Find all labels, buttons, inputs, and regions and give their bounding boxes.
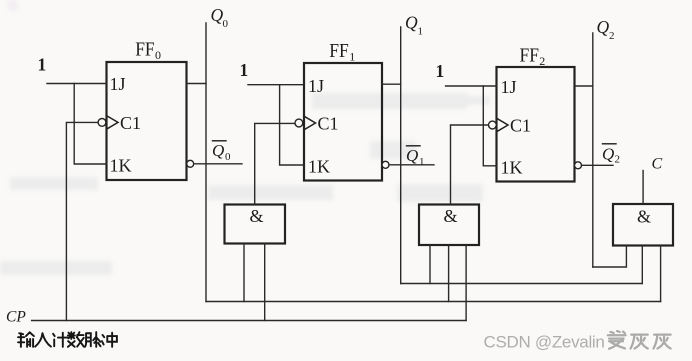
flip-flop FF0 <box>107 62 187 180</box>
wire: Qbar stub FF0 <box>194 163 242 165</box>
svg-text:1: 1 <box>436 61 445 81</box>
svg-text:0: 0 <box>223 18 229 30</box>
flip-flop FF2 <box>497 67 575 182</box>
svg-text:&: & <box>250 206 264 226</box>
label FF1 <box>329 40 355 64</box>
label Qbar0 <box>212 141 231 163</box>
label Q1 <box>405 13 423 38</box>
svg-text:0: 0 <box>155 48 161 62</box>
svg-text:C1: C1 <box>120 113 141 133</box>
svg-text:C1: C1 <box>510 116 531 136</box>
svg-text:0: 0 <box>225 151 231 163</box>
svg-text:Q: Q <box>597 17 610 37</box>
svg-text:CSDN @Zevalin: CSDN @Zevalin <box>484 333 605 352</box>
数 <box>68 332 84 347</box>
AND gate G3 <box>613 204 673 246</box>
svg-text:C1: C1 <box>318 114 339 134</box>
svg-text:1J: 1J <box>501 77 517 97</box>
wire: G2 input from CP bus <box>465 245 467 321</box>
wire: Q0 bus <box>206 301 661 303</box>
wire: Qbar stub FF1 <box>389 164 434 166</box>
svg-text:1K: 1K <box>501 158 523 178</box>
label FF0 <box>135 39 161 63</box>
svg-text:2: 2 <box>539 54 545 68</box>
svg-text:2: 2 <box>615 154 621 166</box>
wire: 1 to 1J FF2 <box>446 85 497 87</box>
node Q0 vertical <box>205 23 207 302</box>
wire: Q output FF2 <box>575 85 593 87</box>
wire: J-K tie FF2 <box>483 86 496 166</box>
svg-text:FF: FF <box>520 45 540 67</box>
scan ghost artifacts (decorative) <box>0 0 490 275</box>
label Q2 <box>597 17 615 42</box>
AND gate G2 <box>419 205 479 246</box>
Qbar bubble FF0 <box>187 160 194 167</box>
svg-text:&: & <box>444 206 458 226</box>
wire: Q2 jog into G3 <box>593 246 627 268</box>
svg-text:Q: Q <box>212 141 224 160</box>
wire: G3 input from Q0 bus <box>660 246 662 302</box>
爱 <box>608 331 626 349</box>
svg-text:CP: CP <box>6 309 26 326</box>
clock bubble FF0 <box>98 119 106 127</box>
svg-text:1: 1 <box>349 50 355 64</box>
Qbar bubble FF2 <box>575 162 582 169</box>
Qbar bubble FF1 <box>382 161 389 168</box>
wire: CP bus <box>32 320 467 322</box>
wire: G2 input from Q0 bus <box>448 245 450 302</box>
label: input counting pulse (Chinese, drawn strokes) <box>18 332 117 347</box>
watermark chars (grey, drawn strokes) <box>608 331 671 349</box>
计 <box>53 333 67 347</box>
svg-text:1K: 1K <box>308 157 330 177</box>
wire: 1 to 1J FF0 <box>47 83 107 85</box>
svg-text:Q: Q <box>405 13 418 33</box>
输 <box>18 332 34 346</box>
svg-text:1: 1 <box>38 55 47 75</box>
wire: G1 output to C1 FF1 <box>255 123 295 204</box>
svg-text:Q: Q <box>406 146 418 165</box>
wire: 1 to 1J FF1 <box>248 84 304 86</box>
clock bubble FF2 <box>489 121 497 129</box>
wire: Q output FF0 <box>187 83 207 85</box>
冲 <box>102 333 117 347</box>
wire: Qbar stub FF2 <box>582 164 614 166</box>
AND gate G1 <box>225 205 286 244</box>
wire: G1 input from Q0 bus <box>243 244 245 302</box>
入 <box>35 333 51 346</box>
灰 <box>631 335 648 349</box>
wire: J-K tie FF1 <box>280 85 304 165</box>
wire: G3 output to C <box>642 171 644 205</box>
wire: Q1 bus <box>401 283 643 285</box>
wire: G1 input from CP bus <box>264 244 266 321</box>
wire: G3 input from Q1 bus <box>641 246 643 284</box>
svg-text:Q: Q <box>602 145 614 164</box>
wire: G2 input from Q1 bus <box>429 245 431 284</box>
label Qbar2 <box>602 144 620 166</box>
label Qbar1 <box>406 146 425 168</box>
svg-text:2: 2 <box>609 30 615 42</box>
svg-text:FF: FF <box>135 39 155 61</box>
脉 <box>85 332 101 347</box>
wire: G2 output to C1 FF2 <box>451 125 489 205</box>
node Q2 vertical <box>592 33 594 267</box>
svg-text:1K: 1K <box>110 156 132 176</box>
wire: J-K tie FF0 <box>74 84 106 165</box>
svg-text:1: 1 <box>418 26 424 38</box>
label FF2 <box>520 45 546 69</box>
node Q1 vertical <box>400 27 402 284</box>
svg-text:1J: 1J <box>110 74 126 94</box>
clock bubble FF1 <box>295 119 303 127</box>
label Q0 <box>211 5 229 30</box>
svg-text:1J: 1J <box>308 76 324 96</box>
flip-flop FF1 <box>304 63 382 181</box>
svg-text:C: C <box>652 156 663 173</box>
svg-text:&: & <box>637 207 651 227</box>
svg-text:1: 1 <box>240 60 249 80</box>
wire: Q output FF1 <box>382 83 401 85</box>
svg-text:1: 1 <box>419 156 425 168</box>
灰 <box>653 335 670 349</box>
wire: CP to C1 FF0 <box>66 122 98 320</box>
svg-text:FF: FF <box>329 40 349 62</box>
